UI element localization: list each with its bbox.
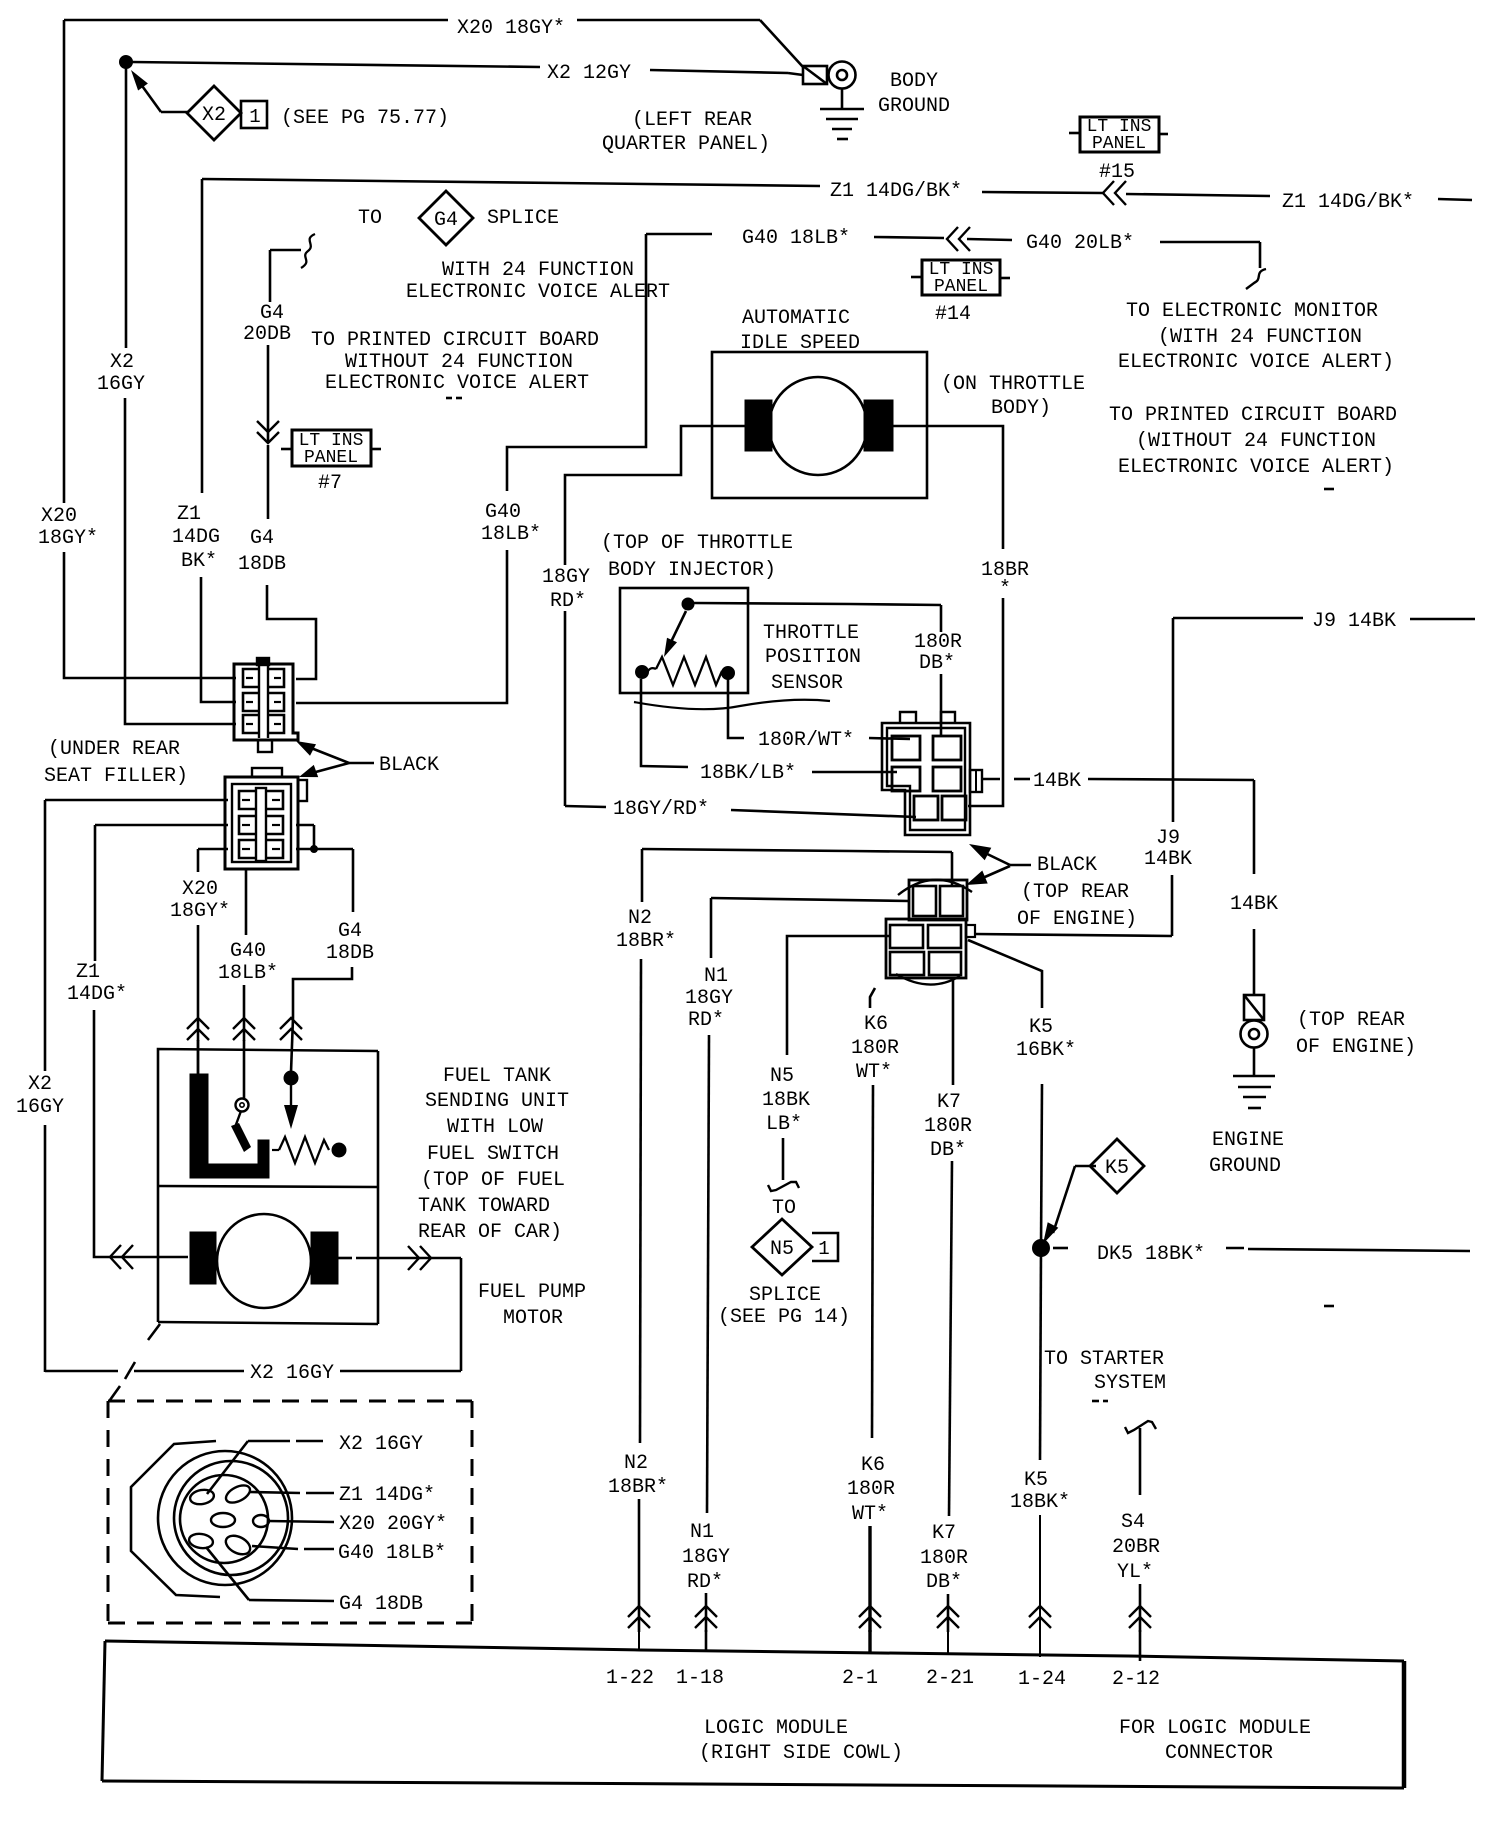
svg-text:(TOP OF THROTTLE: (TOP OF THROTTLE — [601, 532, 793, 555]
svg-text:FUEL TANK: FUEL TANK — [443, 1065, 551, 1088]
wire DK5 18BK* long — [1226, 1247, 1244, 1250]
wire Z1 14DG/BK* vertical — [201, 179, 204, 493]
connector C4 cavity r1R — [940, 886, 963, 916]
svg-text:18BK: 18BK — [762, 1089, 810, 1112]
connector arrow G40 at panel — [947, 227, 970, 251]
svg-text:18BR*: 18BR* — [608, 1476, 668, 1499]
connector arrow S4 — [1129, 1606, 1151, 1628]
svg-text:ELECTRONIC VOICE ALERT): ELECTRONIC VOICE ALERT) — [1118, 351, 1394, 374]
connector C4 cavity r1L — [913, 886, 936, 916]
svg-text:(TOP REAR: (TOP REAR — [1021, 881, 1129, 904]
connector C2 pins row2 — [239, 816, 255, 834]
splice symbol N5-1 — [752, 1219, 812, 1275]
svg-text:G40: G40 — [230, 940, 266, 963]
connector C4 lower box — [886, 919, 966, 978]
wire S4 stub — [1139, 1630, 1142, 1661]
svg-text:20BR: 20BR — [1112, 1536, 1160, 1559]
TPS terminal dots — [636, 666, 649, 679]
wire N2 18BR* long — [640, 959, 641, 1443]
svg-text:LB*: LB* — [766, 1113, 802, 1136]
svg-text:X2 16GY: X2 16GY — [250, 1362, 334, 1385]
svg-text:K7: K7 — [937, 1091, 961, 1114]
wire K6 stub — [868, 1630, 871, 1653]
wire X20 18GY* down to tank — [197, 849, 200, 872]
svg-text:#7: #7 — [318, 472, 342, 495]
wire 180R/WT* from TPS right dot — [728, 679, 744, 738]
connector arrow Z1 at panel — [1103, 181, 1126, 205]
wire X2 12GY (to body ground) — [132, 62, 540, 67]
svg-text:TO: TO — [772, 1197, 796, 1220]
svg-text:18LB*: 18LB* — [481, 523, 541, 546]
svg-text:PANEL: PANEL — [934, 277, 988, 297]
connector arrow X20 into tank — [187, 1018, 209, 1040]
connector C4 tab — [966, 925, 975, 937]
wire S4 to module — [1139, 1584, 1142, 1632]
fuel pump compartment box — [157, 1186, 160, 1322]
svg-text:YL*: YL* — [1117, 1561, 1153, 1584]
svg-text:BLACK: BLACK — [1037, 854, 1097, 877]
wire N2 stub — [638, 1630, 640, 1651]
wire K5 stub — [1039, 1630, 1041, 1657]
svg-text:K5: K5 — [1029, 1016, 1053, 1039]
break squiggle N5 — [768, 1182, 799, 1191]
svg-text:18GY: 18GY — [682, 1546, 730, 1569]
connector pin G4b — [223, 1532, 253, 1558]
junction splice dot X2 — [120, 56, 133, 69]
svg-text:(SEE PG 14): (SEE PG 14) — [718, 1306, 850, 1329]
connector arrow N1 — [695, 1606, 717, 1628]
svg-text:RD*: RD* — [550, 590, 586, 613]
svg-text:G4: G4 — [250, 527, 274, 550]
svg-text:14BK: 14BK — [1144, 848, 1192, 871]
svg-text:18GY: 18GY — [685, 987, 733, 1010]
svg-text:ELECTRONIC VOICE ALERT: ELECTRONIC VOICE ALERT — [406, 281, 670, 304]
connector C3 tab — [970, 770, 982, 792]
svg-text:X2: X2 — [28, 1073, 52, 1096]
break squiggle G40 right — [1246, 269, 1266, 289]
svg-text:2-12: 2-12 — [1112, 1668, 1160, 1691]
wire X2 16GY vertical (from dot) — [125, 68, 128, 348]
svg-text:14DG*: 14DG* — [67, 983, 127, 1006]
body ground bolt symbol — [803, 66, 827, 84]
AIS motor symbol — [769, 377, 867, 475]
svg-text:WITHOUT 24 FUNCTION: WITHOUT 24 FUNCTION — [345, 351, 573, 374]
stray dash pair — [1092, 1400, 1099, 1403]
svg-text:G4 18DB: G4 18DB — [339, 1593, 423, 1616]
leader Z1 14DG* — [250, 1492, 300, 1493]
svg-text:(ON THROTTLE: (ON THROTTLE — [941, 373, 1085, 396]
svg-text:GROUND: GROUND — [878, 95, 950, 118]
svg-text:X20: X20 — [41, 505, 77, 528]
svg-text:1-22: 1-22 — [606, 1667, 654, 1690]
svg-text:TO PRINTED CIRCUIT BOARD: TO PRINTED CIRCUIT BOARD — [311, 329, 599, 352]
connector arrow K5 — [1029, 1606, 1051, 1628]
wire N1 to module — [705, 1593, 708, 1632]
wire X20 18GY* (top run) — [64, 19, 448, 22]
connector arrow K6 — [859, 1606, 881, 1628]
connector C2 pins row3 — [239, 840, 255, 858]
svg-text:1-18: 1-18 — [676, 1667, 724, 1690]
wire G4 20DB to panel #7 — [267, 345, 270, 443]
svg-text:(TOP REAR: (TOP REAR — [1297, 1009, 1405, 1032]
wire 18GY RD* from AIS left — [565, 426, 745, 565]
svg-text:ELECTRONIC VOICE ALERT): ELECTRONIC VOICE ALERT) — [1118, 456, 1394, 479]
wire S4 break squiggle — [1125, 1421, 1156, 1433]
round connector body — [131, 1441, 220, 1597]
svg-text:K5: K5 — [1024, 1469, 1048, 1492]
wire N1 stub — [705, 1630, 708, 1652]
connector C1 pins row1 — [243, 669, 258, 687]
wire N2 18BR* feed — [642, 849, 952, 852]
splice diamond K5 — [1090, 1139, 1144, 1193]
TPS wiper terminal dot — [682, 598, 694, 610]
svg-text:2-21: 2-21 — [926, 1667, 974, 1690]
connector C4 cavity r3R — [929, 952, 961, 975]
ground symbol (body) — [820, 108, 864, 111]
splice symbol X2-1 — [187, 86, 241, 140]
svg-text:X2: X2 — [110, 351, 134, 374]
connector C3 cavity r3L — [914, 796, 938, 820]
ground symbol (engine) — [1233, 1075, 1275, 1078]
svg-text:X2 12GY: X2 12GY — [547, 62, 631, 85]
svg-text:G4: G4 — [260, 302, 284, 325]
connector pin X2 — [189, 1488, 215, 1506]
wire 14BK to bolt — [1253, 929, 1256, 995]
svg-text:THROTTLE: THROTTLE — [763, 622, 859, 645]
wire 18BK/LB* from TPS left dot — [641, 679, 688, 767]
connector arrow G40 into tank — [233, 1018, 255, 1040]
break slash X2 16GY — [125, 1362, 135, 1379]
svg-text:DK5 18BK*: DK5 18BK* — [1097, 1243, 1205, 1266]
connector arrow fuel pump left — [110, 1245, 133, 1269]
svg-text:N1: N1 — [704, 965, 728, 988]
wire K6 180R WT* from C4 — [870, 988, 875, 1008]
connector C1 pins row3 — [243, 715, 258, 733]
connector pin X20 — [211, 1513, 235, 1527]
svg-text:14BK: 14BK — [1033, 770, 1081, 793]
wire 14BK from C3 tab — [982, 778, 1000, 781]
svg-text:AUTOMATIC: AUTOMATIC — [742, 307, 850, 330]
wire G4 18DB down — [352, 849, 355, 912]
wire X2 16GY left loop vertical — [44, 800, 47, 1071]
svg-text:G4: G4 — [338, 920, 362, 943]
connector C2 body (6-way) — [225, 777, 298, 869]
svg-text:Z1 14DG*: Z1 14DG* — [339, 1484, 435, 1507]
svg-text:SPLICE: SPLICE — [487, 207, 559, 230]
svg-text:180R: 180R — [847, 1478, 895, 1501]
wire G4 20DB from splice — [301, 234, 315, 268]
svg-text:18BK/LB*: 18BK/LB* — [700, 762, 796, 785]
svg-text:(TOP OF FUEL: (TOP OF FUEL — [421, 1169, 565, 1192]
wire K7 stub — [947, 1630, 949, 1654]
svg-text:DB*: DB* — [930, 1139, 966, 1162]
fuel tank sending unit box — [158, 1049, 378, 1186]
svg-text:BLACK: BLACK — [379, 754, 439, 777]
svg-text:MOTOR: MOTOR — [503, 1307, 563, 1330]
svg-text:N5: N5 — [770, 1065, 794, 1088]
wire G40 18LB* riser (C1 to top) — [296, 550, 507, 703]
svg-text:K6: K6 — [861, 1454, 885, 1477]
wire G4 18DB to low fuel switch — [293, 967, 352, 1018]
svg-text:G40 18LB*: G40 18LB* — [742, 227, 850, 250]
wire N5 18BK LB* from C4 — [787, 936, 890, 1055]
wire X20 18GY* from C2 — [198, 848, 228, 851]
wire X20 into sending unit — [197, 1040, 200, 1076]
connector arrow N2 — [628, 1606, 650, 1628]
wire 180R/WT* into C3 — [869, 738, 910, 739]
wire N5 stub to splice — [782, 1138, 785, 1180]
logic module box — [105, 1641, 1404, 1661]
svg-text:X2 16GY: X2 16GY — [339, 1433, 423, 1456]
connector C4 upper box — [909, 880, 967, 920]
connector C3 cavity r1R — [933, 736, 961, 760]
connector arrow K7 — [937, 1606, 959, 1628]
LT INS PANEL #7 box — [292, 430, 371, 466]
connector pin G40b — [188, 1532, 214, 1549]
svg-text:N2: N2 — [624, 1452, 648, 1475]
svg-text:180R: 180R — [851, 1037, 899, 1060]
svg-text:(WITH 24 FUNCTION: (WITH 24 FUNCTION — [1158, 326, 1362, 349]
engine ground bolt symbol — [1244, 995, 1264, 1020]
svg-text:#14: #14 — [935, 303, 971, 326]
LT INS PANEL #14 box — [922, 260, 1000, 295]
svg-text:WITH 24 FUNCTION: WITH 24 FUNCTION — [442, 259, 634, 282]
low fuel switch arrow — [290, 1085, 292, 1106]
connector C3 cavity r2L — [892, 767, 920, 791]
wire Z1 14DG* to fuel pump — [94, 1010, 188, 1257]
svg-text:OF ENGINE): OF ENGINE) — [1296, 1036, 1416, 1059]
svg-text:1: 1 — [249, 106, 260, 128]
svg-text:TO PRINTED CIRCUIT BOARD: TO PRINTED CIRCUIT BOARD — [1109, 404, 1397, 427]
wire N2 to module — [638, 1499, 641, 1632]
wire 18GY/RD* horizontal — [565, 806, 606, 807]
svg-text:14BK: 14BK — [1230, 893, 1278, 916]
connector pin Z1 — [223, 1482, 253, 1506]
wire G4 18DB from panel #7 — [267, 445, 270, 519]
AIS box — [712, 352, 927, 498]
connector C4 cavity r2L — [890, 925, 923, 948]
svg-text:X20: X20 — [182, 878, 218, 901]
svg-text:G40 20LB*: G40 20LB* — [1026, 232, 1134, 255]
connector C4 cavity r2R — [928, 925, 961, 948]
svg-text:SPLICE: SPLICE — [749, 1284, 821, 1307]
svg-text:180R: 180R — [914, 631, 962, 654]
svg-text:180R: 180R — [920, 1547, 968, 1570]
connector C1 body (6-way) — [234, 664, 298, 740]
svg-text:N5: N5 — [770, 1238, 794, 1261]
svg-text:18GY*: 18GY* — [38, 527, 98, 550]
svg-text:X2: X2 — [202, 104, 226, 127]
stray dashes — [446, 397, 452, 400]
svg-text:DB*: DB* — [919, 652, 955, 675]
wire Z1 14DG* from C2 — [95, 824, 228, 827]
svg-text:GROUND: GROUND — [1209, 1155, 1281, 1178]
svg-text:16BK*: 16BK* — [1016, 1039, 1076, 1062]
sending unit resistor bracket (thick L) — [190, 1074, 269, 1178]
svg-text:BODY INJECTOR): BODY INJECTOR) — [608, 559, 776, 582]
TPS wiper arrow — [670, 611, 686, 644]
svg-text:DB*: DB* — [926, 1571, 962, 1594]
connector C2 center rib — [256, 788, 266, 861]
wire K5 lower — [1040, 1248, 1041, 1460]
connector C1 pins row2 — [243, 693, 258, 711]
wire 18BR* from AIS right — [893, 426, 1003, 549]
svg-text:18LB*: 18LB* — [218, 962, 278, 985]
svg-text:180R: 180R — [924, 1115, 972, 1138]
svg-text:16GY: 16GY — [16, 1096, 64, 1119]
svg-text:K7: K7 — [932, 1522, 956, 1545]
wire Z1 14DG* vertical — [94, 825, 97, 961]
wire Z1 into connector C1 — [201, 577, 236, 702]
svg-text:PANEL: PANEL — [1092, 134, 1146, 154]
connector C2 pins row1 — [239, 791, 255, 809]
wire K5 to module — [1039, 1515, 1041, 1632]
connector C3 cavity r3R — [942, 796, 966, 820]
svg-text:*: * — [999, 578, 1011, 601]
wire J9 lower — [1171, 875, 1174, 936]
junction dot G4/G40 — [311, 846, 318, 853]
svg-text:RD*: RD* — [687, 1571, 723, 1594]
svg-text:K6: K6 — [864, 1013, 888, 1036]
svg-text:SENSOR: SENSOR — [771, 672, 843, 695]
junction dot DK5 — [1033, 1240, 1050, 1257]
svg-text:Z1: Z1 — [76, 961, 100, 984]
svg-text:1-24: 1-24 — [1018, 1668, 1066, 1691]
wire X20 into connector C1 — [64, 552, 236, 678]
svg-text:LOGIC MODULE: LOGIC MODULE — [704, 1717, 848, 1740]
svg-text:FUEL PUMP: FUEL PUMP — [478, 1281, 586, 1304]
wire J9 vertical — [1172, 618, 1175, 822]
svg-text:18GY: 18GY — [542, 566, 590, 589]
svg-text:SYSTEM: SYSTEM — [1094, 1372, 1166, 1395]
svg-text:G4: G4 — [434, 209, 458, 232]
TPS box — [620, 588, 748, 693]
svg-text:FOR LOGIC MODULE: FOR LOGIC MODULE — [1119, 1717, 1311, 1740]
svg-text:REAR OF CAR): REAR OF CAR) — [418, 1221, 562, 1244]
svg-text:SEAT FILLER): SEAT FILLER) — [44, 765, 188, 788]
svg-text:WT*: WT* — [856, 1061, 892, 1084]
wire N1 18GY RD* feed — [711, 898, 909, 901]
svg-text:J9 14BK: J9 14BK — [1312, 610, 1396, 633]
wire G4 18DB across — [296, 848, 353, 851]
svg-text:14DG: 14DG — [172, 526, 220, 549]
svg-text:X20 20GY*: X20 20GY* — [339, 1513, 447, 1536]
wire 180R DB* from wiper — [694, 603, 850, 604]
svg-text:BODY: BODY — [890, 70, 938, 93]
svg-text:16GY: 16GY — [97, 373, 145, 396]
svg-text:S4: S4 — [1121, 1511, 1145, 1534]
svg-text:Z1 14DG/BK*: Z1 14DG/BK* — [1282, 191, 1414, 214]
connector arrow G4 into tank — [280, 1018, 302, 1040]
wire K7 long — [949, 1161, 952, 1516]
svg-text:OF ENGINE): OF ENGINE) — [1017, 908, 1137, 931]
leader X20 20GY* — [268, 1521, 334, 1522]
low fuel switch contact dot — [284, 1071, 298, 1085]
svg-text:SENDING UNIT: SENDING UNIT — [425, 1090, 569, 1113]
svg-text:20DB: 20DB — [243, 323, 291, 346]
svg-text:TO: TO — [358, 207, 382, 230]
svg-text:X20 18GY*: X20 18GY* — [457, 17, 565, 40]
arrow to splice diamond X2 — [131, 70, 148, 91]
wire X2 16GY bottom run — [45, 1370, 118, 1373]
svg-text:TO ELECTRONIC MONITOR: TO ELECTRONIC MONITOR — [1126, 300, 1378, 323]
float arm needle — [234, 1111, 241, 1130]
arrowhead K5 leader — [1043, 1222, 1058, 1244]
wire 18BK/LB* into C3 — [812, 771, 897, 774]
svg-text:180R/WT*: 180R/WT* — [758, 729, 854, 752]
wire X2 16GY loop lower — [44, 1125, 47, 1372]
leader X2 16GY — [207, 1441, 248, 1494]
dashed box (connector face view) — [108, 1400, 472, 1403]
svg-text:18BK*: 18BK* — [1010, 1491, 1070, 1514]
connector C4 body arcs — [898, 880, 972, 895]
svg-text:1: 1 — [818, 1238, 829, 1260]
fuel pump motor symbol — [217, 1214, 311, 1308]
wire G40 (18LB*/20LB* horizontal) — [646, 233, 712, 236]
svg-text:CONNECTOR: CONNECTOR — [1165, 1742, 1273, 1765]
svg-text:BODY): BODY) — [991, 397, 1051, 420]
svg-text:(LEFT REAR: (LEFT REAR — [632, 109, 752, 132]
wire N1 long — [707, 1035, 709, 1513]
wire G4 to switch contact — [291, 1018, 293, 1072]
wire X20 18GY* tank segment — [197, 925, 200, 1041]
wire X20 18GY* left vertical — [63, 20, 66, 503]
svg-text:G40: G40 — [485, 501, 521, 524]
svg-text:18DB: 18DB — [326, 942, 374, 965]
svg-text:G40 18LB*: G40 18LB* — [338, 1542, 446, 1565]
wire S4 upper — [1139, 1428, 1142, 1495]
leader G40 18LB* — [252, 1546, 298, 1549]
wire G40 18LB* from C2 bottom — [245, 869, 248, 935]
wire 18GY/RD* down — [564, 611, 567, 806]
svg-text:PANEL: PANEL — [304, 448, 358, 468]
wire X2 16GY from C2 to left loop — [45, 799, 228, 802]
svg-text:(SEE PG 75.77): (SEE PG 75.77) — [281, 107, 449, 130]
wire G40 to float arm — [243, 985, 246, 1041]
sender resistor zigzag — [272, 1149, 279, 1151]
svg-text:WT*: WT* — [852, 1503, 888, 1526]
svg-text:QUARTER PANEL): QUARTER PANEL) — [602, 133, 770, 156]
svg-text:#15: #15 — [1099, 161, 1135, 184]
leader G4 18DB — [206, 1547, 249, 1600]
connector notch — [253, 1515, 269, 1527]
TPS resistor zigzag — [647, 668, 656, 673]
svg-text:N2: N2 — [628, 907, 652, 930]
svg-text:(WITHOUT 24 FUNCTION: (WITHOUT 24 FUNCTION — [1136, 430, 1376, 453]
wire K7 to module — [947, 1594, 950, 1632]
svg-text:BK*: BK* — [181, 550, 217, 573]
arrow callouts BLACK (seat connectors) — [296, 741, 316, 756]
wire Z1 14DG/BK* (long horizontal) — [202, 179, 560, 183]
wire X2 16GY from pump right — [338, 1257, 352, 1260]
connector C3 body — [882, 723, 970, 835]
wire K5 diamond leader — [1075, 1165, 1096, 1168]
svg-text:Z1: Z1 — [177, 503, 201, 526]
svg-text:TO STARTER: TO STARTER — [1044, 1348, 1164, 1371]
connector C1 center rib — [258, 666, 260, 738]
svg-text:FUEL SWITCH: FUEL SWITCH — [427, 1143, 559, 1166]
svg-text:K5: K5 — [1105, 1157, 1129, 1180]
wire G4 18DB to connector C1 — [267, 585, 316, 679]
connector C4 cavity r3L — [890, 952, 924, 975]
svg-text:POSITION: POSITION — [765, 646, 861, 669]
wire K6 long — [872, 1085, 873, 1438]
wire 14BK to engine ground drop — [1088, 779, 1254, 780]
svg-text:(UNDER REAR: (UNDER REAR — [48, 738, 180, 761]
svg-text:WITH LOW: WITH LOW — [447, 1116, 543, 1139]
svg-text:18GY*: 18GY* — [170, 900, 230, 923]
TPS underline squiggle — [634, 700, 830, 709]
